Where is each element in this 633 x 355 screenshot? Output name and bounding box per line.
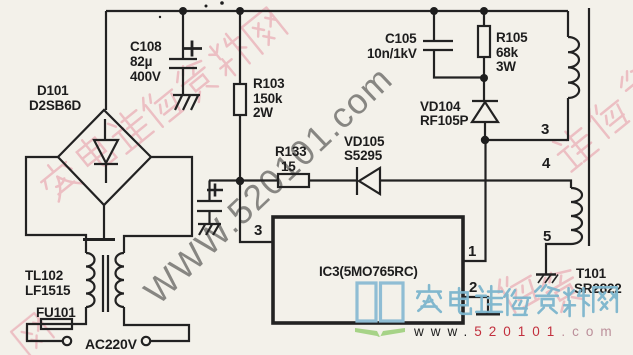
- svg-text:AC220V: AC220V: [85, 336, 138, 352]
- svg-text:R105: R105: [496, 30, 528, 45]
- svg-text:1: 1: [468, 243, 476, 260]
- svg-text:VD105: VD105: [344, 134, 385, 149]
- svg-text:FU101: FU101: [36, 305, 76, 320]
- svg-text:400V: 400V: [130, 69, 161, 84]
- svg-text:5: 5: [543, 228, 551, 245]
- svg-text:2: 2: [469, 279, 477, 296]
- svg-text:C108: C108: [130, 39, 162, 54]
- svg-text:10n/1kV: 10n/1kV: [367, 46, 417, 61]
- svg-text:LF1515: LF1515: [25, 283, 71, 298]
- svg-text:D101: D101: [37, 83, 69, 98]
- svg-text:IC3(5MO765RC): IC3(5MO765RC): [319, 264, 418, 279]
- svg-text:D2SB6D: D2SB6D: [29, 98, 82, 113]
- svg-text:68k: 68k: [496, 45, 519, 60]
- svg-text:3W: 3W: [496, 59, 516, 74]
- svg-text:3: 3: [541, 121, 549, 138]
- svg-text:3: 3: [254, 222, 262, 239]
- svg-text:VD104: VD104: [420, 99, 461, 114]
- svg-text:82µ: 82µ: [130, 54, 152, 69]
- svg-text:R103: R103: [253, 76, 285, 91]
- svg-text:www.520101.com: www.520101.com: [413, 324, 619, 339]
- svg-text:4: 4: [542, 155, 551, 172]
- svg-text:C105: C105: [385, 31, 417, 46]
- svg-text:TL102: TL102: [25, 268, 63, 283]
- svg-text:2W: 2W: [253, 105, 273, 120]
- svg-text:15: 15: [281, 159, 296, 174]
- svg-text:RF105P: RF105P: [420, 113, 469, 128]
- svg-text:R133: R133: [275, 144, 307, 159]
- svg-text:T101: T101: [576, 266, 607, 281]
- svg-text:S5295: S5295: [344, 148, 383, 163]
- svg-text:150k: 150k: [253, 91, 283, 106]
